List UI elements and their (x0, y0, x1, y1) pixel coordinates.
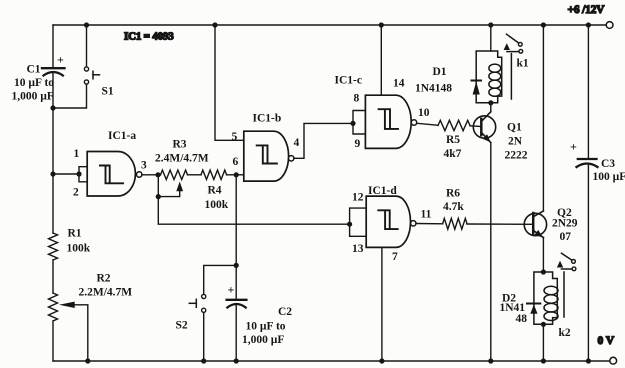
node junction wiper tie (156, 194, 161, 199)
resistor R4 (201, 170, 227, 179)
wire pin 6 down to C2 (235, 175, 237, 300)
relay K1 coil box (476, 51, 502, 103)
wire left rail below C1 (52, 73, 54, 234)
svg-text:R4: R4 (208, 185, 222, 197)
capacitor C3 (577, 159, 598, 167)
IC1-b schmitt icon (257, 145, 277, 163)
wire rail to IC1-b pin 5 (215, 25, 244, 140)
wire R3 wiper to left node (158, 191, 179, 197)
svg-text:k2: k2 (559, 327, 571, 339)
svg-text:1,000 µF: 1,000 µF (242, 334, 284, 346)
diode D1 (472, 81, 482, 95)
transistor Q1 (473, 112, 495, 143)
svg-text:IC1-b: IC1-b (253, 113, 282, 125)
k1 actuator link line (510, 54, 512, 99)
wire S2 to bottom rail (203, 313, 205, 362)
wire IC1-b output to IC1-c inputs (294, 123, 353, 158)
wire IC1-a input bracket pins 1-2 (79, 167, 87, 182)
node junction R2 wiper on rail (85, 358, 90, 363)
node junction K2 on bottom rail (541, 358, 546, 363)
svg-text:8: 8 (354, 93, 360, 105)
svg-text:2.2M/4.7M: 2.2M/4.7M (79, 287, 133, 299)
switch S1 (84, 67, 99, 84)
switch k1 contacts (507, 34, 523, 53)
wire pin 11 to R6 (416, 223, 443, 225)
IC1-c output bubble pin 10 (411, 120, 416, 125)
svg-text:IC1-a: IC1-a (108, 130, 136, 142)
switch k2 contacts (561, 253, 575, 270)
resistor R3 potentiometer (161, 170, 188, 179)
svg-text:7: 7 (392, 251, 398, 263)
R2 wiper arrow (59, 302, 75, 308)
wire R2 wiper to bottom rail (75, 305, 88, 361)
node junction k1 branch on rail (488, 22, 493, 27)
svg-text:4.7k: 4.7k (443, 201, 464, 213)
wire pin 10 to R5 (417, 123, 438, 125)
wire top rail +V (53, 24, 606, 26)
wire K2 to bottom rail (542, 324, 544, 361)
svg-text:1N4148: 1N4148 (415, 83, 452, 95)
node junction S2 on bottom rail (201, 358, 206, 363)
svg-text:48: 48 (516, 313, 528, 325)
k2 actuator arrow (557, 261, 563, 268)
svg-text:100 µF: 100 µF (593, 171, 625, 183)
wire R4 to IC1-b pin 6 (227, 174, 244, 176)
node junction on IC1-a bracket (76, 171, 81, 176)
svg-text:+6 /12V: +6 /12V (568, 4, 606, 16)
node junction C2 on bottom rail (234, 358, 239, 363)
svg-text:13: 13 (352, 243, 364, 255)
svg-text:9: 9 (355, 138, 361, 150)
node junction R3 left (155, 172, 160, 177)
capacitor C1 (42, 68, 65, 75)
node junction pin 7 on bottom rail (379, 358, 384, 363)
svg-text:12: 12 (352, 192, 364, 204)
wire bottom rail 0V (53, 360, 610, 362)
svg-text:R1: R1 (68, 228, 82, 240)
potentiometer R2 (49, 293, 58, 321)
wire left rail top segment (52, 25, 54, 68)
IC1-a output bubble pin 3 (137, 172, 142, 177)
svg-text:4k7: 4k7 (444, 148, 462, 160)
wire Q2 to relay K2 (542, 238, 544, 272)
svg-text:IC1-d: IC1-d (368, 185, 397, 197)
relay K1 coil loops (489, 64, 501, 96)
relay K2 coil loops (544, 286, 558, 320)
terminal 0V (610, 357, 617, 364)
svg-text:10 µF to: 10 µF to (246, 321, 286, 333)
wire rail down to C3 (587, 25, 589, 159)
node junction Q2 branch on rail (541, 22, 546, 27)
wire C3 to bottom rail (587, 164, 589, 361)
switch S2 (189, 294, 205, 312)
svg-text:+: + (570, 140, 577, 154)
k2 actuator link line (563, 272, 565, 317)
wire rail to IC1-c pin 14 (380, 25, 382, 95)
node junction K2 box bottom (541, 322, 546, 327)
IC1-a schmitt icon (100, 166, 123, 184)
node junction K2 box top (541, 269, 546, 274)
svg-text:k1: k1 (517, 58, 529, 70)
wire S1 upper (86, 25, 88, 67)
wire C2 to bottom rail (235, 305, 237, 362)
resistor R6 (443, 218, 467, 229)
svg-text:S1: S1 (102, 86, 114, 98)
svg-text:3: 3 (141, 160, 147, 172)
wire IC1-a output to R3 (142, 174, 161, 176)
node junction S2/C2 (234, 263, 239, 268)
node junction C3 on top rail (586, 22, 591, 27)
IC1-c schmitt icon (379, 109, 398, 129)
svg-text:R3: R3 (173, 139, 187, 151)
node junction C1/S1 bottom (50, 105, 55, 110)
svg-text:11: 11 (421, 209, 432, 221)
svg-text:14: 14 (393, 78, 405, 90)
svg-text:4: 4 (294, 137, 300, 149)
node junction IC1-a input tap (50, 171, 55, 176)
IC1-b output bubble pin 4 (289, 156, 294, 161)
wire R6 to Q2 base (467, 223, 533, 225)
nand gate IC1-c body (365, 95, 411, 148)
Q1 emitter arrow (483, 134, 491, 142)
svg-text:+: + (228, 283, 235, 297)
svg-text:R2: R2 (97, 273, 111, 285)
svg-text:07: 07 (560, 231, 572, 243)
wire between R1 and R2 (52, 260, 54, 293)
wire rail to relay K1 box (490, 25, 492, 51)
svg-text:IC1 = 4093: IC1 = 4093 (124, 31, 174, 43)
wire to S2 (204, 265, 237, 294)
wire R2 bottom to rail corner (52, 321, 54, 361)
svg-text:2N29: 2N29 (552, 218, 578, 230)
svg-text:10 µF to: 10 µF to (14, 77, 54, 89)
wire Q1 emitter to bottom rail (490, 143, 492, 361)
svg-text:R6: R6 (446, 188, 460, 200)
svg-text:2: 2 (73, 187, 79, 199)
svg-text:10: 10 (418, 107, 430, 119)
node junction pin 14 on rail (379, 22, 384, 27)
wire R5 to Q1 base (470, 125, 481, 128)
svg-text:IC1-c: IC1-c (335, 75, 362, 87)
Q2 emitter arrow (534, 230, 543, 238)
svg-text:0 V: 0 V (598, 335, 615, 347)
node junction K1 box bottom (488, 100, 493, 105)
svg-text:2222: 2222 (505, 150, 528, 162)
svg-text:1: 1 (74, 148, 80, 160)
svg-text:6: 6 (233, 156, 239, 168)
resistor R1 (49, 233, 58, 260)
node junction Q1 emitter on bottom rail (488, 358, 493, 363)
node junction C3 on bottom rail (586, 358, 591, 363)
nand gate IC1-b body (244, 131, 289, 181)
wire S1 lower to C1 branch (53, 84, 87, 108)
svg-text:5: 5 (232, 131, 238, 143)
diode D2 (527, 304, 540, 314)
nand gate IC1-d body (366, 196, 410, 247)
svg-text:S2: S2 (176, 320, 188, 332)
transistor Q2 (524, 211, 546, 238)
svg-text:1,000 µF: 1,000 µF (12, 91, 54, 103)
k1 actuator arrow (504, 43, 510, 50)
wire IC1-d input bracket pins 12-13 (350, 208, 367, 236)
IC1-d schmitt icon (378, 210, 397, 229)
node junction on IC1-d bracket (347, 222, 352, 227)
svg-text:C3: C3 (601, 158, 615, 170)
wire IC1-d pin 7 to bottom rail (381, 247, 383, 361)
wire IC1-a input from rail (53, 173, 79, 175)
wire R3 to R4 (188, 174, 202, 176)
node junction S1 top on rail (84, 22, 89, 27)
svg-text:2.4M/4.7M: 2.4M/4.7M (155, 153, 209, 165)
resistor R5 (438, 120, 470, 130)
terminal +6/12V (606, 22, 613, 29)
capacitor C2 (227, 300, 247, 308)
R3 wiper arrow (176, 182, 183, 192)
svg-text:Q1: Q1 (507, 122, 522, 134)
op-amp gate IC1-a body (87, 152, 135, 197)
relay K2 coil box (534, 272, 557, 324)
svg-text:D1: D1 (433, 66, 447, 78)
svg-text:R5: R5 (446, 134, 460, 146)
svg-text:C1: C1 (27, 64, 41, 76)
node junction on IC1-c bracket (350, 121, 355, 126)
svg-text:+: + (57, 53, 64, 67)
wire R3 left node down and across to IC1-d (158, 175, 349, 224)
wire Q1 collector up to relay (490, 103, 492, 112)
IC1-d output bubble pin 11 (411, 221, 416, 226)
svg-text:100k: 100k (205, 199, 229, 211)
wire rail down to Q2 (542, 25, 544, 211)
svg-text:2N: 2N (508, 136, 523, 148)
wire IC1-c input bracket pins 8-9 (353, 111, 365, 135)
svg-text:C2: C2 (278, 306, 292, 318)
svg-text:100k: 100k (67, 243, 91, 255)
node junction pin 5 on rail (212, 22, 217, 27)
node junction pin 6 / C2 tap (234, 172, 239, 177)
